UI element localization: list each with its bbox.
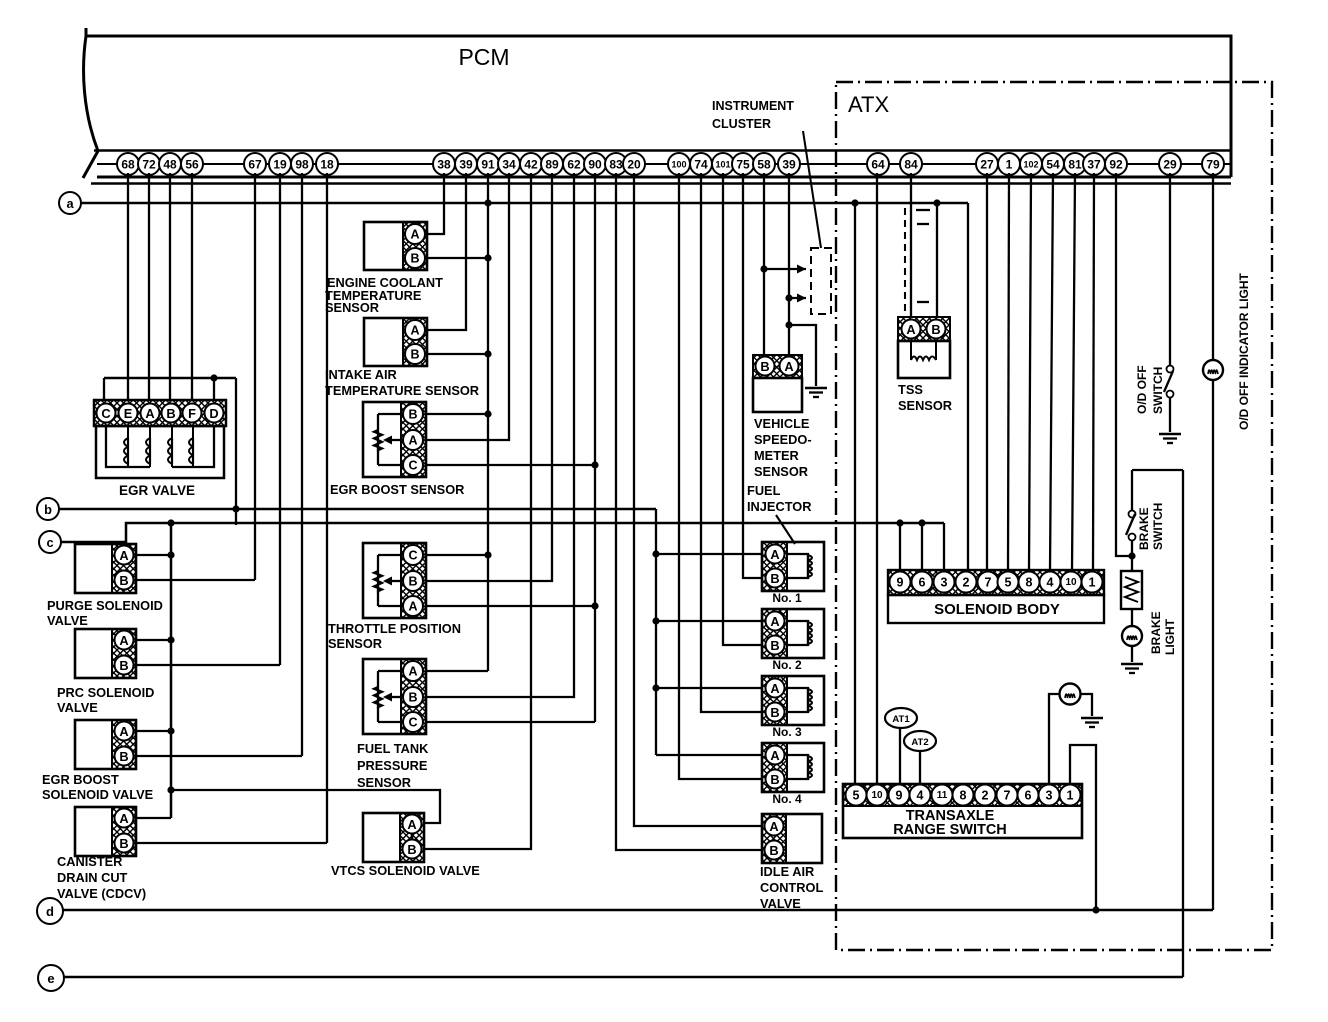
junction net-a / TSS shield wire [933,199,940,206]
wire CANISTER DRAIN CUT VALVE pin B to PCM pin 18 [136,842,327,844]
IDLE AIR CONTROL VALVE pin B [765,841,784,860]
INSTRUMENT CLUSTER dashed box [811,248,831,314]
THROTTLE POSITION SENSOR pin A [403,596,423,616]
svg-text:B: B [408,575,417,589]
svg-text:84: 84 [904,158,918,172]
wire PCM pin 92 down [1116,173,1132,556]
svg-text:VALVE: VALVE [57,700,98,715]
ground symbol at vehicle speedometer sensor [805,387,827,390]
junction pin 58 instrument cluster branch [760,265,767,272]
svg-text:6: 6 [919,576,926,590]
PCM connector strip top edge [94,149,1231,152]
svg-text:B: B [770,571,779,586]
svg-text:CANISTER: CANISTER [57,854,122,869]
svg-text:A: A [906,322,915,337]
fuel injector No. 2 pin A [766,612,785,631]
svg-text:O/D OFF INDICATOR LIGHT: O/D OFF INDICATOR LIGHT [1237,272,1251,430]
wire PCM pin 39 to IAT sensor pin A [427,173,466,330]
wire THROTTLE POSITION SENSOR pin C to return bus [427,554,488,556]
fuel injector No. 2 body box [762,609,824,658]
solenoid body pin 6 [912,572,933,593]
svg-text:B: B [931,322,940,337]
svg-text:B: B [770,772,779,787]
transaxle range switch pin 10 [867,785,888,806]
wire net-a down to TSS sensor pin B [936,203,938,317]
svg-text:58: 58 [757,158,771,172]
wire net-b to injector No.2 pin A [656,620,762,622]
PCM pin 100 [668,153,690,175]
PCM pin 64 [867,153,889,175]
fuel injector No. 4 connector strip [762,743,787,792]
svg-text:3: 3 [941,576,948,590]
svg-text:9: 9 [897,576,904,590]
brake switch blade [1126,514,1135,535]
FUEL TANK PRESSURE SENSOR wiper arrow [386,696,401,698]
PRC SOLENOID VALVE pin A [115,631,134,650]
brake light resistor hatch [1125,577,1138,602]
wire EGR cap horizontal over EGR valve [104,377,236,380]
TSS shield tick 3 [917,301,929,303]
svg-text:8: 8 [960,789,967,803]
FUEL TANK PRESSURE SENSOR body box [363,659,426,734]
svg-text:VALVE: VALVE [760,896,801,911]
svg-text:A: A [784,359,793,374]
junction return bus IAT B [484,350,491,357]
EGR BOOST SENSOR wiper arrow [386,439,401,441]
svg-text:B: B [408,408,417,422]
EGR BOOST SENSOR pin B [403,404,423,424]
solenoid body pin 9 [890,572,911,593]
svg-text:B: B [769,843,778,858]
EGR valve pin F [183,404,202,423]
THROTTLE POSITION SENSOR pin B [403,571,423,591]
junction net-c left solenoid A-bus [167,519,174,526]
THROTTLE POSITION SENSOR body box [363,543,426,618]
PCM pin 42 [520,153,542,175]
wire net-a drop to solenoid body pin 2 [967,203,969,571]
EGR valve winding 2 [149,438,151,464]
wire net-a horizontal from node a to x968 [81,202,968,205]
TSS shield tick 1 [916,209,930,211]
THROTTLE POSITION SENSOR pin C [403,545,423,565]
svg-text:39: 39 [459,158,473,172]
wire PCM pin 58 down to vehicle speedometer sensor pin B [763,173,765,356]
PCM connector strip mid line [97,163,1231,165]
svg-text:64: 64 [871,158,885,172]
VEHICLE SPEEDOMETER SENSOR body box [753,378,802,412]
TSS shield dashed left side [904,208,906,315]
PCM pin 58 [753,153,775,175]
wire THROTTLE POSITION SENSOR pin A to pin-90 bus [427,605,595,607]
PURGE SOLENOID VALVE body box [75,544,136,593]
svg-text:c: c [46,535,53,550]
junction net-b injector No3 A [652,684,659,691]
svg-text:D: D [209,406,218,421]
PCM pin 92 [1105,153,1127,175]
wire injector No.4 pin B to PCM pin 100 [679,173,762,779]
junction net-c solenoid body pin 9 drop [896,519,903,526]
TSS SENSOR connector strip [898,317,950,341]
wire brake switch top to net-e riser [1132,469,1183,471]
wire PCM pin 91 sensor-return bus down [487,173,489,671]
TRANSAXLE RANGE SWITCH connector strip [843,784,1082,806]
PURGE SOLENOID VALVE pin A [115,546,134,565]
junction brake switch / brake light node [1128,552,1135,559]
fuel injector No. 3 body box [762,676,824,725]
motor M at transaxle range switch [1060,684,1081,705]
wire AT2 to TRS pin 4 [919,752,921,784]
wire TRS pin 1 up and over to net-d [1070,745,1096,910]
fuel injector No. 1 pin B [766,569,785,588]
svg-text:No. 4: No. 4 [772,792,802,806]
EGR valve internal wire pin C side rail [106,426,150,467]
svg-text:VALVE: VALVE [47,613,88,628]
svg-text:3: 3 [1046,789,1053,803]
wire O/D OFF switch to ground [1169,398,1171,432]
solenoid body pin 4 [1040,572,1061,593]
svg-text:No. 1: No. 1 [772,591,802,605]
junction net-b injector No1 A [652,550,659,557]
svg-text:B: B [760,359,769,374]
PCM pin 84 [900,153,922,175]
PCM connector strip bottom edge [97,176,1231,179]
EGR valve winding 4 [192,438,194,464]
svg-text:VALVE (CDCV): VALVE (CDCV) [57,886,146,901]
svg-text:SENSOR: SENSOR [357,775,411,790]
svg-text:A: A [770,681,779,696]
FUEL TANK PRESSURE SENSOR pin C [403,712,423,732]
PCM pin 38 [433,153,455,175]
wire AT1 to TRS pin 9 [899,729,901,784]
INTAKE AIR TEMPERATURE SENSOR connector strip [403,318,427,366]
AT2 connector oval [904,731,936,751]
svg-text:PRESSURE: PRESSURE [357,758,428,773]
TSS SENSOR internal coil [911,341,936,360]
svg-text:LIGHT: LIGHT [1163,618,1177,655]
ground symbol at brake light [1121,663,1143,666]
svg-text:81: 81 [1068,158,1082,172]
PCM pin 101 [712,153,734,175]
transaxle range switch pin 8 [953,785,974,806]
PCM pin 20 [623,153,645,175]
transaxle range switch pin 2 [975,785,996,806]
wire net-c A-bus down left side [170,523,173,818]
wire net-b to injector No.3 pin A [656,687,762,689]
wire PCM pin 84 down to TSS sensor pin A [910,173,912,317]
svg-text:SPEEDO-: SPEEDO- [754,432,812,447]
VEHICLE SPEEDOMETER SENSOR connector strip [753,355,802,378]
svg-text:6: 6 [1025,789,1032,803]
INSTRUMENT CLUSTER pointer line [803,131,821,248]
IDLE AIR CONTROL VALVE pin A [765,817,784,836]
svg-text:54: 54 [1046,158,1060,172]
wire PCM pin 56 to EGR valve pin F [191,173,193,400]
junction net-a / sensor return bus [484,199,491,206]
solenoid body pin 2 [956,572,977,593]
fuel injector No. 4 body box [762,743,824,792]
EGR BOOST SOLENOID VALVE connector strip [112,720,136,769]
solenoid body pin 5 [998,572,1019,593]
transaxle range switch pin 1 [1060,785,1081,806]
wire net-e up right side to brake switch [1182,470,1184,977]
AT1 connector oval [885,708,917,728]
svg-text:A: A [769,819,778,834]
EGR BOOST SENSOR pin A [403,430,423,450]
svg-text:EGR BOOST SENSOR: EGR BOOST SENSOR [330,482,464,497]
junction A-bus EGR boost solenoid A [167,727,174,734]
svg-text:101: 101 [715,160,730,170]
wire net-b to injector No.1 pin A [656,553,762,555]
VTCS SOLENOID VALVE body box [363,813,424,862]
svg-text:102: 102 [1023,160,1038,170]
node d connector circle [37,898,63,924]
svg-text:B: B [770,638,779,653]
transaxle range switch pin 7 [997,785,1018,806]
fuel injector No. 1 coil [787,554,808,578]
PCM pin 83 [605,153,627,175]
svg-text:7: 7 [1004,789,1011,803]
wire A-bus to PRC SOLENOID VALVE pin A [136,639,171,641]
svg-text:SENSOR: SENSOR [754,464,808,479]
PCM pin 90 [584,153,606,175]
svg-text:A: A [408,665,417,679]
TSS shield tick 2 [917,223,929,225]
wire PCM pin 102 to solenoid body pin 8 [1029,173,1031,571]
wire to instrument cluster upper arrow [764,268,806,270]
node a connector circle [59,192,81,214]
svg-text:A: A [408,434,417,448]
svg-text:10: 10 [871,790,883,801]
CANISTER DRAIN CUT VALVE (CDCV) body box [75,807,136,856]
svg-text:SWITCH: SWITCH [1151,503,1165,550]
junction pin 39 instrument cluster branch [785,294,792,301]
ground symbol at O/D OFF switch [1159,433,1181,436]
transaxle range switch pin 4 [910,785,931,806]
svg-text:A: A [145,406,154,421]
svg-text:EGR BOOST: EGR BOOST [42,772,119,787]
svg-text:SENSOR: SENSOR [328,636,382,651]
TSS SENSOR pin B [927,320,946,339]
TSS SENSOR body box [898,341,950,378]
junction return bus TPS C [484,551,491,558]
O/D OFF switch bottom terminal [1167,391,1174,398]
transaxle range switch pin 3 [1039,785,1060,806]
svg-text:SOLENOID VALVE: SOLENOID VALVE [42,787,154,802]
svg-text:b: b [44,502,52,517]
svg-text:A: A [408,600,417,614]
wire PCM pin 29 down to O/D OFF switch [1169,173,1171,366]
PCM pin 19 [269,153,291,175]
node c connector circle [39,531,61,553]
svg-text:A: A [410,324,419,338]
svg-text:PCM: PCM [458,44,509,70]
fuel injector No. 2 pin B [766,636,785,655]
wire PCM pin 20 to IDLE AIR CONTROL VALVE pin A [634,173,762,826]
EGR BOOST SENSOR body box [363,402,426,477]
EGR valve pin B [162,404,181,423]
fuel injector No. 1 body box [762,542,824,591]
junction net-b / EGR cap vertical [232,505,239,512]
ATX dashed boundary box [836,82,1272,950]
svg-text:B: B [119,573,128,588]
wire net-c drop to solenoid body pin 9 [899,523,901,571]
PCM module box [86,36,1231,177]
fuel injector No. 4 coil [787,755,808,779]
PCM pin 48 [159,153,181,175]
FUEL TANK PRESSURE SENSOR pin B [403,687,423,707]
PCM pin 75 [732,153,754,175]
wire PCM pin 64 down to transaxle range switch pin 10 [876,173,878,784]
wire net-c drop to solenoid body pin 6 [921,523,923,571]
svg-text:100: 100 [671,160,686,170]
PCM pin 39 [778,153,800,175]
svg-text:48: 48 [163,158,177,172]
PCM pin 18 [316,153,338,175]
svg-text:BRAKE: BRAKE [1137,507,1151,550]
svg-text:PRC SOLENOID: PRC SOLENOID [57,685,154,700]
PCM pin 102 [1020,153,1042,175]
svg-text:A: A [119,811,128,826]
fuel injector No. 2 coil [787,621,808,645]
svg-text:1: 1 [1067,789,1074,803]
wire PCM pin 72 to EGR valve pin A [148,173,150,400]
PCM pin 27 [976,153,998,175]
wire net-a down to transaxle range switch pin 5 [854,203,856,784]
INTAKE AIR TEMPERATURE SENSOR body box [364,318,427,366]
FUEL INJECTOR pointer line [776,515,795,544]
wire EGR cap left drop to EGR valve pin C [103,378,105,400]
O/D OFF switch top terminal [1167,366,1174,373]
wire EGR BOOST SENSOR pin B to return bus [427,413,488,415]
PCM pin 89 [541,153,563,175]
svg-text:No. 2: No. 2 [772,658,802,672]
svg-text:THROTTLE POSITION: THROTTLE POSITION [328,621,461,636]
INTAKE AIR TEMPERATURE SENSOR pin B [405,344,425,364]
wire vehicle speedometer sensor shield to ground [789,325,816,386]
brake switch bottom terminal [1129,534,1136,541]
wire brake light lamp to ground [1131,646,1133,662]
svg-text:10: 10 [1065,577,1077,588]
wire PCM pin 27 to solenoid body pin 7 [986,173,988,571]
svg-text:C: C [101,406,110,421]
wire EGR cap vertical down to net-c [235,378,237,525]
svg-text:38: 38 [437,158,451,172]
O/D OFF switch blade [1164,371,1173,392]
wire FUEL TANK PRESSURE SENSOR pin C to pin-90 bus end [427,721,595,723]
svg-text:DRAIN CUT: DRAIN CUT [57,870,128,885]
wire IAT sensor pin B to return bus [427,353,488,355]
svg-text:AT2: AT2 [911,737,928,748]
svg-text:INSTRUMENT: INSTRUMENT [712,99,794,113]
wire net-b drop to injector A bus [655,509,657,755]
svg-text:TEMPERATURE SENSOR: TEMPERATURE SENSOR [325,383,479,398]
svg-text:RANGE SWITCH: RANGE SWITCH [893,822,1007,838]
THROTTLE POSITION SENSOR connector strip [401,543,426,618]
INTAKE AIR TEMPERATURE SENSOR pin A [405,320,425,340]
EGR valve connector strip [94,400,226,426]
wire O/D OFF indicator light down to net-d [1212,380,1214,910]
node e connector circle [38,965,64,991]
PCM pin 79 [1202,153,1224,175]
EGR BOOST SOLENOID VALVE pin A [115,722,134,741]
svg-text:PURGE SOLENOID: PURGE SOLENOID [47,598,163,613]
svg-text:20: 20 [627,158,641,172]
ENGINE COOLANT TEMPERATURE SENSOR connector strip [403,222,427,270]
svg-text:5: 5 [1005,576,1012,590]
wire A-bus to PURGE SOLENOID VALVE pin A [136,554,171,556]
wire PCM pin 1 to solenoid body pin 5 [1008,173,1009,571]
wire net-b horizontal from node b [59,508,656,511]
junction A-bus purge A [167,551,174,558]
brake switch top terminal [1129,511,1136,518]
CANISTER DRAIN CUT VALVE (CDCV) connector strip [112,807,136,856]
svg-text:a: a [66,196,74,211]
svg-text:A: A [119,548,128,563]
svg-text:INJECTOR: INJECTOR [747,499,811,514]
wire A-bus end to CANISTER DRAIN CUT VALVE pin A [136,817,171,819]
svg-text:AT1: AT1 [892,714,910,725]
svg-text:42: 42 [524,158,538,172]
THROTTLE POSITION SENSOR wiper arrow [386,580,401,582]
VTCS SOLENOID VALVE pin A [403,815,422,834]
PRC SOLENOID VALVE pin B [115,656,134,675]
wire ECT sensor pin B to return bus [427,257,488,259]
svg-text:2: 2 [963,576,970,590]
solenoid body pin 3 [934,572,955,593]
svg-text:A: A [407,817,416,832]
wire PCM pin 68 to EGR valve pin E [127,173,129,400]
SOLENOID BODY connector strip [888,570,1104,595]
wire PCM pin 81 to solenoid body pin 10 [1072,173,1075,571]
svg-text:INTAKE AIR: INTAKE AIR [325,367,397,382]
svg-text:EGR VALVE: EGR VALVE [119,483,195,498]
svg-text:F: F [188,406,196,421]
wire brake switch upper to switch [1131,470,1133,511]
VTCS SOLENOID VALVE connector strip [400,813,424,862]
fuel injector No. 3 coil [787,688,808,712]
CANISTER DRAIN CUT VALVE (CDCV) pin B [115,834,134,853]
wire EGR BOOST SOLENOID VALVE pin B to PCM pin 98 [136,755,302,757]
svg-text:C: C [408,459,417,473]
wire PRC SOLENOID VALVE pin B to PCM pin 19 [136,664,280,666]
svg-text:FUEL: FUEL [747,483,781,498]
svg-text:56: 56 [185,158,199,172]
ENGINE COOLANT TEMPERATURE SENSOR pin A [405,224,425,244]
solenoid body pin 1 [1082,572,1103,593]
IDLE AIR CONTROL VALVE connector strip [762,814,786,863]
svg-text:98: 98 [295,158,309,172]
EGR valve pin E [119,404,138,423]
wire FUEL TANK PRESSURE SENSOR pin A to return bus end [427,670,488,672]
svg-text:BRAKE: BRAKE [1149,611,1163,654]
EGR BOOST SENSOR internal potentiometer [378,413,401,415]
junction pin-90 bus TPS A [591,602,598,609]
svg-text:d: d [46,904,54,919]
svg-text:1: 1 [1089,576,1096,590]
ENGINE COOLANT TEMPERATURE SENSOR body box [364,222,427,270]
wire PCM pin 48 to EGR valve pin B [169,173,171,400]
svg-text:2: 2 [982,789,989,803]
PCM pin 81 [1064,153,1086,175]
svg-text:8: 8 [1026,576,1033,590]
wire EGR cap drop to EGR valve pin D [213,378,215,400]
svg-text:37: 37 [1087,158,1101,172]
svg-text:91: 91 [481,158,495,172]
EGR BOOST SOLENOID VALVE body box [75,720,136,769]
junction net-d / transaxle range switch pin 1 wire [1092,906,1099,913]
wire PCM pin 42 down to VTCS pin B [424,173,531,849]
wire PCM pin 62 to FUEL TANK PRESSURE SENSOR pin B [427,173,574,697]
